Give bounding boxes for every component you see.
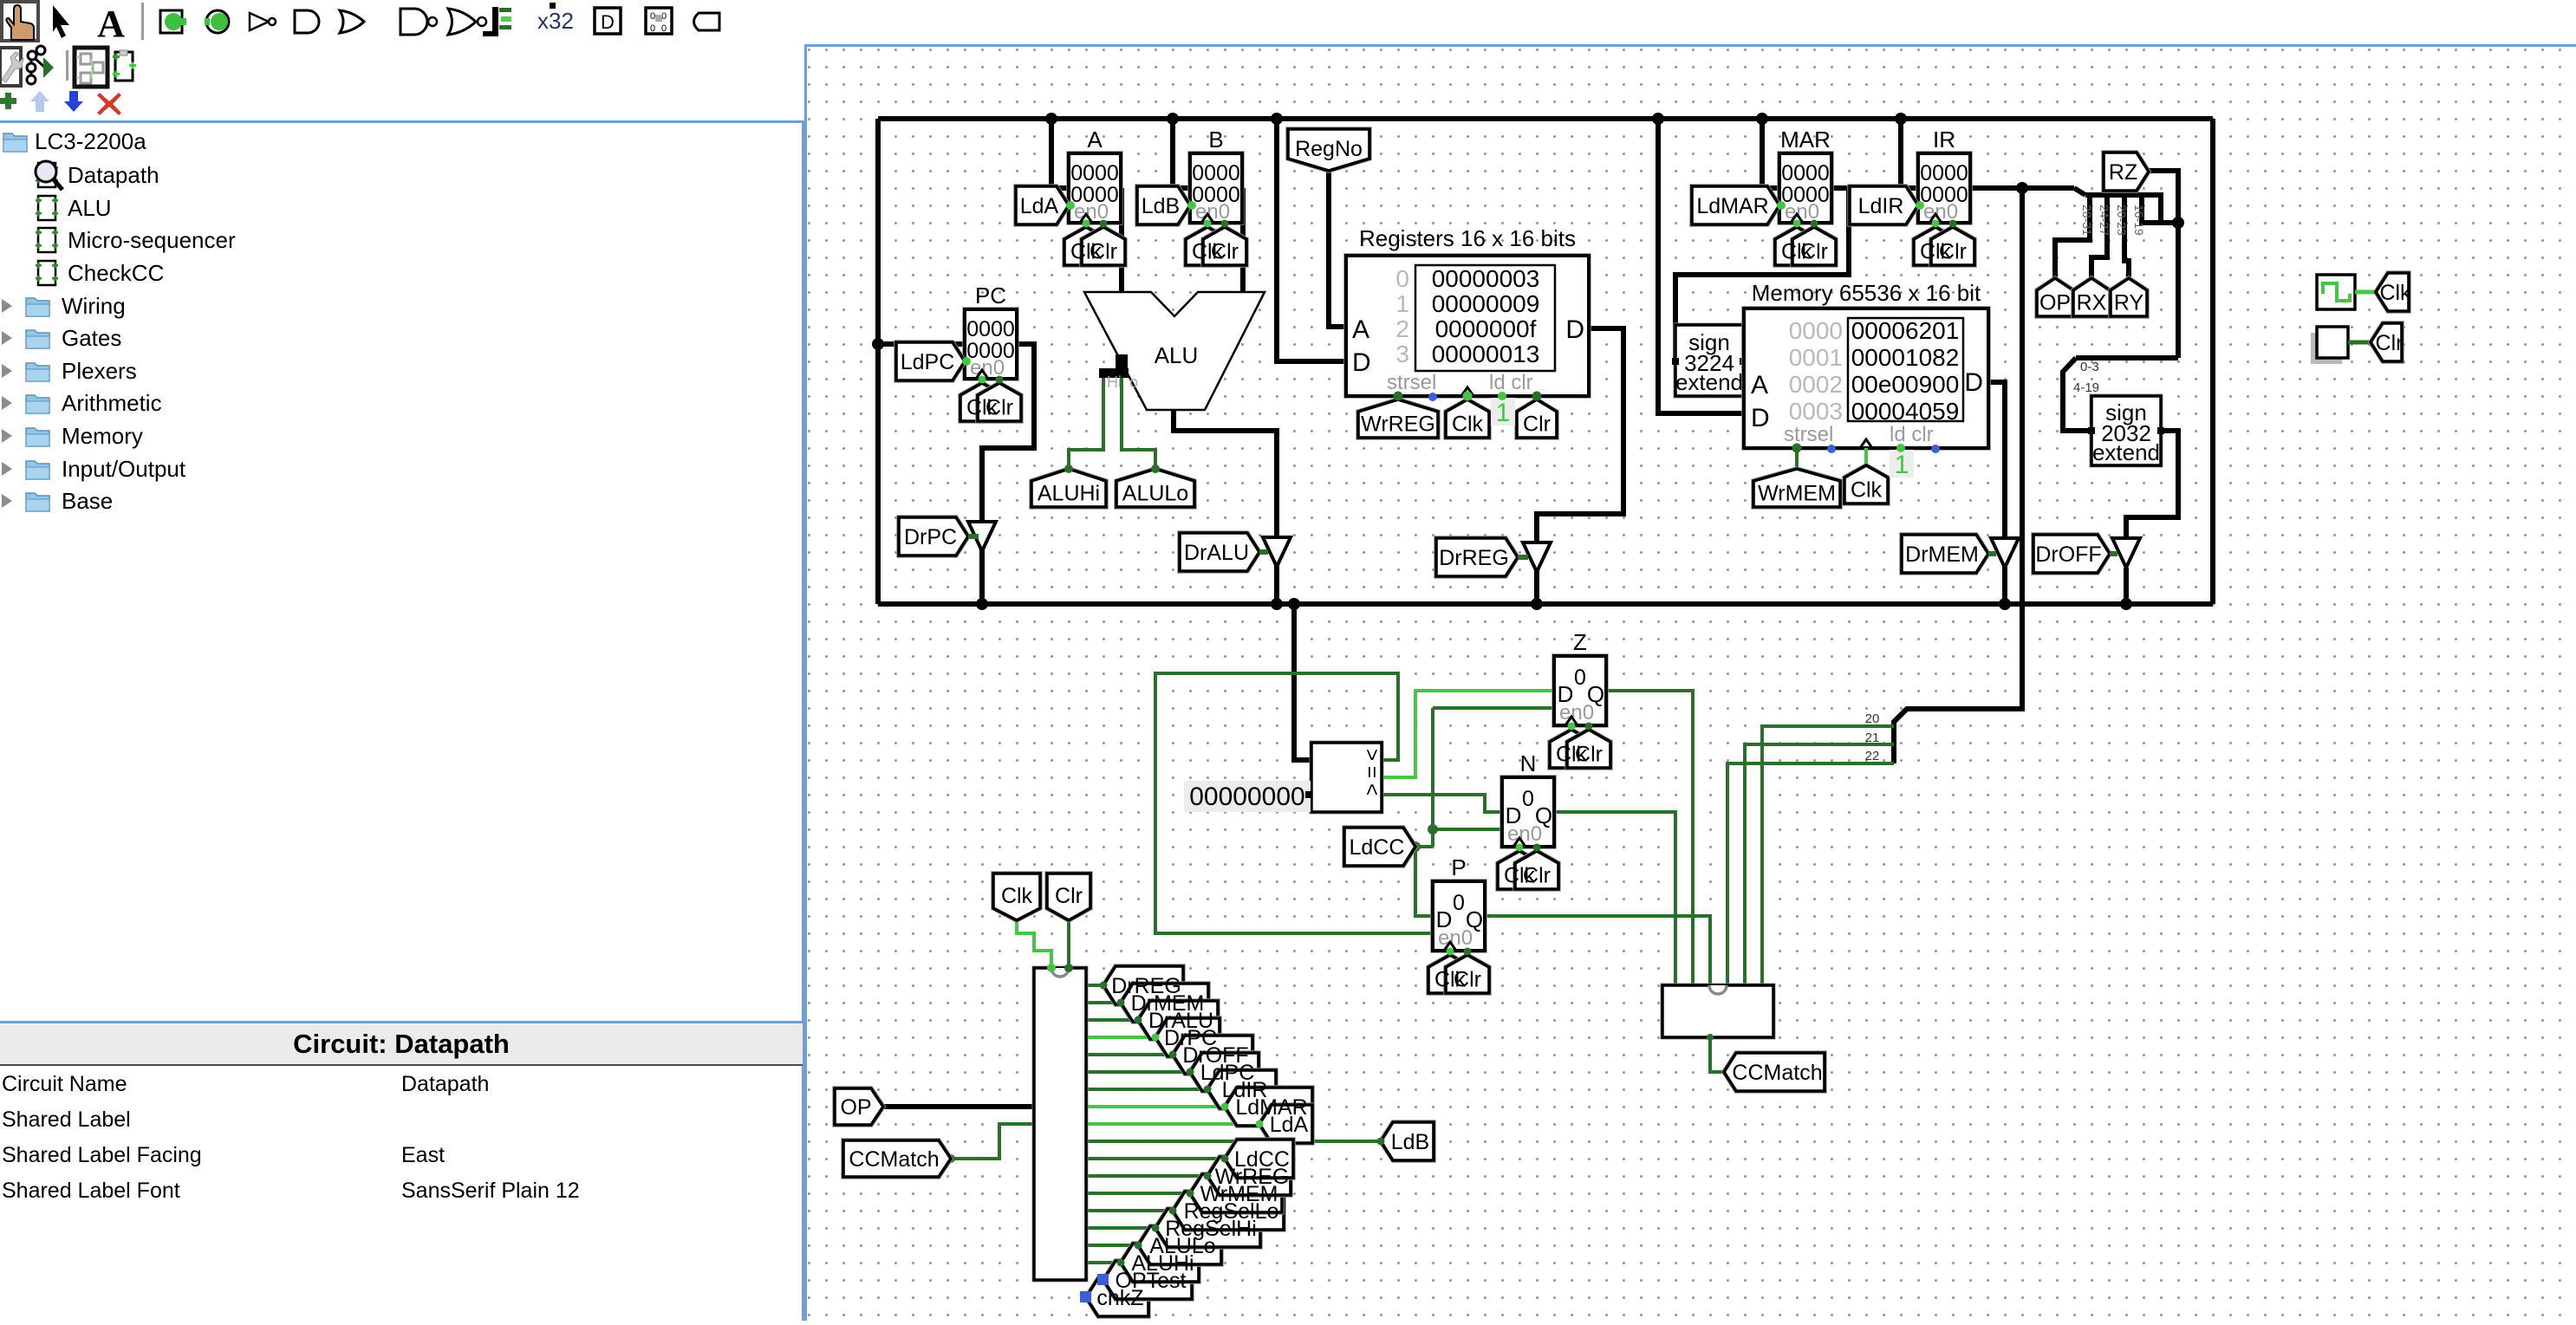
- pin LdIR: [1850, 186, 1918, 224]
- pin OP: [835, 1088, 883, 1125]
- svg-text:Registers 16 x 16 bits: Registers 16 x 16 bits: [1359, 225, 1576, 251]
- svg-text:00006201: 00006201: [1851, 317, 1960, 344]
- node RegFile.clr: [1532, 392, 1542, 401]
- wire PC.Q to DrPC: [982, 344, 1034, 604]
- node PC.en: [962, 357, 971, 366]
- wire decoder out DrREG: [1086, 984, 1103, 987]
- svg-text:Micro-sequencer: Micro-sequencer: [68, 227, 236, 253]
- comparator U_CMP: [1311, 743, 1383, 812]
- wire DrREG enable stub: [1518, 555, 1528, 560]
- svg-text:LdA: LdA: [1270, 1113, 1309, 1137]
- pin LdIR: [1207, 1070, 1276, 1108]
- junction PC.D tap: [872, 338, 884, 350]
- svg-text:0000: 0000: [1781, 161, 1830, 185]
- pin LdB: [1381, 1122, 1434, 1160]
- wire WrMEM stub: [1795, 448, 1799, 469]
- wire WrREG stub: [1396, 396, 1400, 399]
- svg-text:24-27: 24-27: [2098, 205, 2111, 236]
- node PC.clk: [979, 376, 986, 384]
- node ALULo: [1151, 464, 1160, 473]
- svg-text:<: <: [1360, 783, 1383, 796]
- node IR.clk: [1932, 220, 1940, 228]
- node A.clr: [1100, 220, 1108, 228]
- node RegFile.clk: [1463, 392, 1473, 401]
- wire comparator > to P.en loop: [1155, 673, 1433, 933]
- wire LdCC vertical: [1431, 708, 1434, 847]
- pin LdPC: [1190, 1053, 1259, 1091]
- node Memory.strsel: [1792, 444, 1802, 453]
- pin RX: [2073, 278, 2110, 316]
- wire RZ net vertical: [2149, 171, 2178, 358]
- svg-text:Clr: Clr: [1800, 240, 1828, 264]
- tool NOT gate: [250, 13, 276, 30]
- wire bus to Memory.D: [1658, 119, 1745, 413]
- wire DrALU enable stub: [1259, 549, 1268, 555]
- svg-text:Clr: Clr: [1211, 240, 1239, 264]
- tri-state buffer T_DrOFF: [2112, 538, 2140, 568]
- svg-text:>: >: [1360, 749, 1383, 761]
- pin LdA: [1016, 186, 1069, 224]
- pin MAR.ClrPin: [1792, 227, 1836, 265]
- wire RegNo to RegFile.A: [1329, 171, 1346, 327]
- pin OP: [2037, 278, 2073, 316]
- wire CCMatch to decoder: [951, 1124, 1034, 1159]
- pin Clr: [1047, 874, 1090, 920]
- button remove: [97, 93, 121, 115]
- node Z.clk: [1568, 723, 1576, 731]
- svg-text:Clr: Clr: [1055, 884, 1083, 908]
- tool register: [646, 8, 672, 34]
- pin WrMEM: [1753, 469, 1840, 507]
- svg-text:P: P: [1451, 854, 1466, 880]
- wire DrMEM enable stub: [1988, 551, 1996, 556]
- pin DrMEM: [1902, 535, 1988, 573]
- pin LdB: [1137, 186, 1190, 224]
- svg-text:0000: 0000: [1192, 161, 1240, 185]
- pin DrOFF: [2033, 535, 2110, 573]
- pin LdPC: [896, 342, 965, 380]
- wire decoder out LdA: [1086, 1122, 1259, 1126]
- wire DrPC enable stub: [968, 534, 979, 539]
- svg-text:Clr: Clr: [1523, 864, 1551, 888]
- svg-text:Clr: Clr: [2376, 331, 2404, 355]
- svg-text:1: 1: [1395, 290, 1409, 317]
- tool wrench (selected): [0, 48, 23, 86]
- svg-text:DrREG: DrREG: [1439, 546, 1509, 570]
- button CLR1: [2311, 327, 2348, 364]
- node N.clk: [1516, 844, 1524, 852]
- svg-text:Clr: Clr: [986, 396, 1013, 420]
- pin ALUHi: [1121, 1244, 1199, 1282]
- node MAR.clr: [1811, 220, 1818, 228]
- wire decoder out LdB: [1086, 1140, 1381, 1143]
- node OPTest unconnected: [1097, 1274, 1109, 1285]
- svg-text:Z: Z: [1573, 629, 1587, 655]
- svg-text:0: 0: [1522, 787, 1534, 811]
- wire Clr to decoder: [1067, 920, 1070, 968]
- svg-text:DrOFF: DrOFF: [2035, 542, 2101, 567]
- svg-text:WrMEM: WrMEM: [1758, 482, 1836, 506]
- wire end dots overlay: [1100, 982, 1108, 990]
- wire right data bus: [2210, 119, 2215, 604]
- pin PC.ClkPin: [960, 383, 1004, 421]
- svg-text:en0: en0: [1559, 701, 1594, 724]
- register PC: [965, 283, 1017, 380]
- clock CLK1: [2317, 275, 2355, 309]
- svg-text:Memory: Memory: [62, 423, 143, 449]
- node B.clr: [1221, 220, 1229, 228]
- sign-extender U_SE3224: [1672, 325, 1747, 396]
- svg-text:extend: extend: [1675, 369, 1743, 395]
- svg-text:Clr: Clr: [1523, 412, 1551, 437]
- pin IR.ClrPin: [1931, 227, 1974, 265]
- wire decoder out LdIR: [1086, 1088, 1207, 1091]
- pin LdMAR: [1692, 186, 1779, 224]
- tool new circuit: [113, 50, 136, 81]
- flip-flop N: [1502, 750, 1554, 847]
- wire offset 4-19 to sign extend: [2063, 358, 2091, 431]
- svg-text:LdA: LdA: [1020, 194, 1059, 218]
- svg-text:PC: PC: [975, 283, 1006, 309]
- pin DrPC: [899, 517, 968, 555]
- svg-text:Hi: Hi: [1107, 373, 1122, 391]
- tri-state buffer T_DrMEM: [1991, 538, 2019, 568]
- button move down: [64, 91, 83, 112]
- svg-text:Clr: Clr: [1090, 240, 1117, 264]
- svg-text:LdCC: LdCC: [1350, 835, 1405, 860]
- svg-text:Base: Base: [62, 488, 113, 514]
- svg-text:20: 20: [1865, 711, 1880, 726]
- constant 1 (Memory ld): [1890, 450, 1914, 479]
- pin Clk: [993, 874, 1040, 920]
- svg-text:Memory 65536 x 16 bit: Memory 65536 x 16 bit: [1752, 280, 1981, 306]
- wire bit20 to CheckCC: [1762, 726, 1894, 985]
- wire LdCC to N.en: [1433, 828, 1502, 831]
- node Z.clr: [1585, 723, 1593, 731]
- node RegFile.ld: [1498, 392, 1506, 400]
- svg-text:00000013: 00000013: [1432, 341, 1540, 367]
- pin IR.ClkPin: [1914, 227, 1957, 265]
- pin P.ClrPin: [1446, 955, 1489, 993]
- svg-text:LdPC: LdPC: [901, 350, 955, 374]
- svg-text:WrREG: WrREG: [1361, 412, 1435, 437]
- svg-text:Clr: Clr: [1575, 743, 1603, 767]
- svg-text:0: 0: [1453, 891, 1465, 915]
- svg-text:CheckCC: CheckCC: [68, 260, 164, 286]
- pin RegSelLo: [1173, 1192, 1284, 1230]
- wire decoder out ALULo: [1086, 1244, 1138, 1247]
- svg-text:LdIR: LdIR: [1858, 194, 1904, 218]
- wire bits 16-19: [2142, 195, 2178, 223]
- node N.clr: [1533, 844, 1541, 852]
- wire P.Q to CheckCC: [1485, 916, 1710, 985]
- svg-text:LdCC: LdCC: [1234, 1147, 1290, 1172]
- pin RegNo: [1288, 129, 1369, 171]
- wire Z.Q to CheckCC: [1606, 691, 1693, 985]
- svg-text:=: =: [1360, 766, 1383, 778]
- svg-text:IR: IR: [1933, 127, 1955, 153]
- subcircuit U_USEQ micro-sequencer decoder: [1034, 968, 1086, 1280]
- pin N.ClrPin: [1515, 851, 1558, 889]
- wire bit21 to CheckCC: [1745, 744, 1894, 985]
- svg-text:0000: 0000: [1070, 161, 1119, 185]
- wire sign extend 2032 to DrOFF: [2126, 431, 2178, 538]
- pin Clk: [2376, 273, 2409, 311]
- wire bit22 to CheckCC: [1727, 763, 1894, 985]
- svg-text:MAR: MAR: [1780, 127, 1831, 153]
- pin Clr: [2371, 323, 2402, 361]
- wire decoder out DrOFF: [1086, 1053, 1173, 1056]
- svg-text:LdB: LdB: [1142, 194, 1180, 218]
- svg-text:22: 22: [1865, 749, 1880, 763]
- pin LdCC: [1225, 1140, 1293, 1178]
- wire IR bits trunk: [2085, 195, 2178, 223]
- pin RegFile.Clk: [1446, 399, 1489, 438]
- wire decoder out WrMEM: [1086, 1192, 1190, 1195]
- pin OPTest: [1103, 1261, 1192, 1299]
- svg-text:0001: 0001: [1789, 344, 1843, 371]
- pin CCMatch: [1724, 1053, 1825, 1091]
- svg-text:A: A: [1352, 315, 1369, 344]
- tool output pin: [205, 10, 229, 33]
- node MAR.en: [1777, 201, 1786, 210]
- pin RY: [2111, 278, 2147, 316]
- wire decoder out LdPC: [1086, 1070, 1190, 1074]
- wire left data bus: [875, 119, 881, 604]
- pin CCMatch: [843, 1140, 951, 1177]
- svg-text:ALULo: ALULo: [1122, 482, 1188, 506]
- node B.clk: [1204, 220, 1212, 228]
- wire decoder out ALUHi: [1086, 1261, 1121, 1264]
- tri-state buffer T_DrALU: [1263, 537, 1291, 567]
- svg-text:0-3: 0-3: [2080, 360, 2099, 374]
- svg-text:Clr: Clr: [1939, 240, 1967, 264]
- svg-text:0: 0: [1574, 666, 1586, 690]
- tool input pin: [160, 10, 186, 33]
- tool NAND gate: [400, 9, 437, 35]
- register IR: [1918, 127, 1970, 224]
- svg-text:Input/Output: Input/Output: [62, 456, 186, 482]
- register MAR: [1779, 127, 1831, 224]
- constant 1 (RegFile ld): [1491, 398, 1515, 427]
- svg-text:1: 1: [1496, 399, 1511, 427]
- wire DrOFF enable stub: [2110, 551, 2117, 556]
- node IR.clr: [1949, 220, 1957, 228]
- pin DrREG: [1436, 538, 1518, 576]
- wire bus to PC.D: [878, 341, 965, 347]
- svg-text:21: 21: [1865, 731, 1880, 745]
- svg-text:D: D: [1751, 404, 1770, 432]
- node decoder.clk: [1047, 964, 1056, 972]
- pin WrMEM: [1190, 1174, 1282, 1212]
- pin Z.ClrPin: [1567, 730, 1610, 768]
- register A: [1069, 127, 1121, 224]
- svg-text:ALU: ALU: [68, 195, 112, 221]
- svg-text:0000: 0000: [1920, 161, 1968, 185]
- svg-text:OP: OP: [2039, 291, 2071, 315]
- svg-text:Wiring: Wiring: [62, 293, 126, 319]
- node CCMatch tap: [946, 1154, 955, 1163]
- svg-text:D: D: [1964, 368, 1983, 397]
- wire clock to Clk pin: [2355, 290, 2376, 295]
- svg-text:Clk: Clk: [1001, 884, 1033, 908]
- wire Clk to decoder: [1017, 920, 1051, 968]
- svg-text:0003: 0003: [1789, 398, 1843, 425]
- svg-text:RY: RY: [2114, 291, 2144, 315]
- wire decoder out DrMEM: [1086, 1001, 1121, 1004]
- constant 00000000: [1184, 781, 1312, 812]
- tool AND gate: [295, 10, 319, 33]
- svg-text:0: 0: [1395, 265, 1409, 292]
- node P.clk: [1447, 948, 1454, 956]
- tool analyze: [27, 46, 45, 84]
- wire B.Q to ALU: [1240, 188, 1246, 295]
- node chkZ unconnected: [1080, 1291, 1091, 1302]
- wire LdCC to P.D: [1415, 847, 1433, 916]
- pin LdCC: [1344, 828, 1415, 866]
- svg-text:28-31: 28-31: [2080, 205, 2094, 236]
- svg-text:ld clr: ld clr: [1489, 371, 1533, 394]
- wire bits 20-23 to RY: [2124, 195, 2129, 278]
- wire ALU out to DrALU: [1174, 410, 1277, 604]
- node RegFile.strsel: [1394, 392, 1403, 401]
- wire decoder out RegSelLo: [1086, 1209, 1173, 1212]
- svg-text:Gates: Gates: [62, 325, 121, 351]
- wire N.Q to CheckCC: [1554, 812, 1675, 985]
- pin Memory.Clk: [1844, 465, 1888, 503]
- svg-text:00000000: 00000000: [1189, 783, 1304, 811]
- schematic canvas: [804, 44, 2576, 1321]
- wire ALU select Lo: [1122, 378, 1155, 469]
- pin ALULo: [1138, 1226, 1221, 1264]
- pin DrPC: [1155, 1018, 1220, 1056]
- svg-text:Clk: Clk: [1851, 478, 1883, 503]
- pin N.ClkPin: [1498, 851, 1541, 889]
- junction dots on bottom bus: [976, 598, 988, 610]
- svg-text:strsel: strsel: [1784, 423, 1833, 446]
- application toolbar: [0, 0, 745, 121]
- wire bus to B.D: [1173, 119, 1190, 188]
- button add: [0, 93, 16, 110]
- svg-text:LdB: LdB: [1391, 1130, 1429, 1154]
- wire LdCC to Z.en: [1433, 706, 1554, 710]
- wire Memory clk stub: [1864, 448, 1868, 465]
- svg-text:0000: 0000: [1789, 317, 1843, 344]
- pin LdA: [1259, 1105, 1312, 1143]
- wire decoder out DrALU: [1086, 1018, 1138, 1022]
- register file U_REGS "Registers 16 x 16 bits": [1346, 225, 1589, 396]
- tri-state buffer T_DrREG: [1523, 542, 1551, 572]
- svg-text:0000: 0000: [966, 317, 1015, 341]
- svg-text:00004059: 00004059: [1851, 398, 1960, 425]
- node PC.clr: [996, 376, 1004, 384]
- pin ALULo: [1116, 469, 1194, 507]
- wire MAR.Q to sign extend 3224: [1675, 188, 1849, 358]
- svg-text:en0: en0: [1507, 822, 1542, 846]
- svg-text:D: D: [1352, 348, 1371, 377]
- junction dots on top bus: [1045, 113, 1057, 125]
- svg-text:DrALU: DrALU: [1184, 541, 1249, 565]
- wire Memory.D out to DrMEM: [1988, 382, 2005, 604]
- wire decoder out DrPC: [1086, 1036, 1155, 1039]
- svg-text:ALU: ALU: [1155, 342, 1199, 368]
- svg-text:LdMAR: LdMAR: [1696, 194, 1768, 218]
- wire bus to IR.D: [1901, 119, 1918, 188]
- tool D flip-flop: [595, 8, 621, 34]
- pin WrREG: [1207, 1157, 1291, 1195]
- svg-text:B: B: [1208, 127, 1223, 153]
- svg-text:Plexers: Plexers: [62, 358, 137, 384]
- node IR.en: [1916, 201, 1924, 210]
- node MAR.clk: [1793, 220, 1801, 228]
- svg-text:strsel: strsel: [1387, 371, 1436, 394]
- wire DrOFF to bus: [2124, 568, 2129, 604]
- pin B.ClkPin: [1186, 227, 1229, 265]
- svg-text:0002: 0002: [1789, 371, 1843, 398]
- tri-state buffer T_DrPC: [968, 522, 996, 551]
- pin B.ClrPin: [1203, 227, 1246, 265]
- svg-text:RegNo: RegNo: [1295, 137, 1363, 161]
- explorer pane divider: [802, 120, 806, 1321]
- ALU select stub: [1099, 354, 1129, 378]
- tool label (oval): [694, 13, 720, 30]
- wire RegFile.D out to DrREG: [1537, 328, 1623, 604]
- pin LdMAR: [1225, 1088, 1312, 1126]
- wire OP to decoder: [883, 1104, 1034, 1109]
- svg-text:A: A: [1751, 371, 1768, 399]
- svg-text:Arithmetic: Arithmetic: [62, 390, 162, 416]
- svg-text:N: N: [1520, 750, 1537, 776]
- node decoder.clr: [1064, 964, 1073, 972]
- wire IR to CC splitter trunk: [1894, 188, 2022, 763]
- pin RegFile.Clr: [1517, 399, 1557, 438]
- wire bits 24-27 to RX: [2091, 195, 2107, 278]
- wire LdCC tap: [1415, 845, 1433, 848]
- memory U_MEM "Memory 65536 x 16 bit": [1744, 280, 1988, 448]
- tool splitter: [483, 7, 511, 36]
- svg-text:20-23: 20-23: [2115, 205, 2129, 236]
- tool x32: [537, 3, 574, 34]
- attributes panel: [0, 1021, 803, 1323]
- svg-text:DrMEM: DrMEM: [1905, 542, 1979, 567]
- pin MAR.ClkPin: [1775, 227, 1818, 265]
- pin WrREG: [1358, 399, 1438, 438]
- svg-text:00000009: 00000009: [1432, 290, 1540, 317]
- svg-text:Clr: Clr: [1454, 968, 1481, 992]
- svg-text:LC3-2200a: LC3-2200a: [35, 128, 146, 154]
- svg-text:00e00900: 00e00900: [1851, 371, 1960, 398]
- wire bottom data bus: [878, 601, 2213, 607]
- svg-text:4-19: 4-19: [2073, 380, 2099, 395]
- node P.clr: [1464, 948, 1472, 956]
- node Memory.ld: [1896, 444, 1905, 452]
- wire bits 28-31 to OP: [2055, 195, 2090, 278]
- project tree: [3, 133, 27, 152]
- node A.en: [1066, 201, 1075, 210]
- pin ALUHi: [1031, 469, 1106, 507]
- pin RegSelHi: [1155, 1209, 1260, 1247]
- node B.en: [1187, 201, 1196, 210]
- pin DrREG: [1103, 966, 1183, 1004]
- wire bus to comparator A: [1294, 604, 1311, 760]
- svg-text:en0: en0: [1438, 926, 1473, 950]
- svg-text:Clk: Clk: [1452, 412, 1484, 437]
- svg-text:RX: RX: [2077, 291, 2107, 315]
- svg-text:ld clr: ld clr: [1890, 423, 1934, 446]
- pin chkZ: [1086, 1278, 1148, 1316]
- op-amp ALU (arithmetic logic unit): [1084, 292, 1265, 410]
- tool OR gate: [340, 10, 364, 33]
